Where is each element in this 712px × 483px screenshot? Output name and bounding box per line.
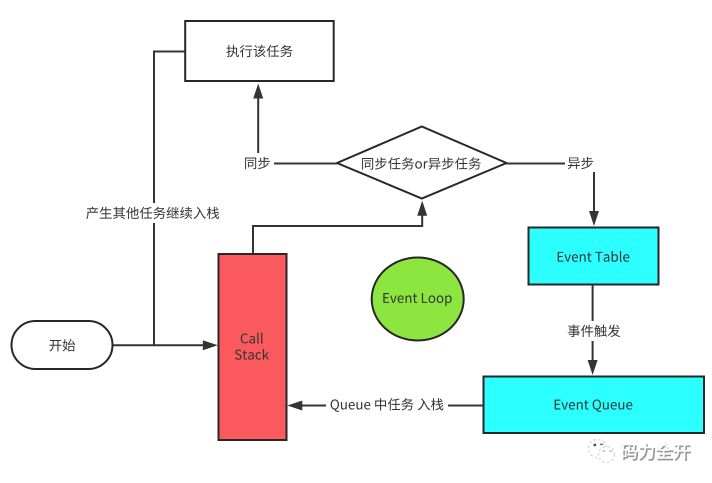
process Event Table (cyan) [529,228,659,285]
arrow: Call Stack up to decision diamond [253,201,427,253]
arrow: Event Table down to Event Queue [588,285,598,375]
label 产生其他任务继续入栈 [86,203,219,223]
ellipse Event Loop (green) [372,258,464,341]
arrow: diamond left to 执行该任务 (同步 branch) [253,84,337,164]
watermark logo icon (two circles) [589,440,615,463]
watermark text 码力全开 [620,443,690,461]
label 同步 [242,153,274,172]
decision diamond 同步任务or异步任务 [337,127,507,199]
arrow: Event Queue left to Call Stack [287,401,483,411]
terminator 开始 [12,321,113,369]
arrow: 开始 to Call Stack [114,340,218,350]
process Call Stack (red) [219,254,287,440]
label 事件触发 [566,321,623,341]
process box 执行该任务 [185,21,334,81]
wire: diamond right to Event Table (异步 branch) [506,164,599,227]
label 异步 [565,153,597,172]
wire: feedback from 执行该任务 down-left to start arrow (产生其他任务继续入栈 path) [154,52,185,346]
label Queue 中任务 入栈 [326,395,448,414]
process Event Queue (cyan) [484,377,705,434]
